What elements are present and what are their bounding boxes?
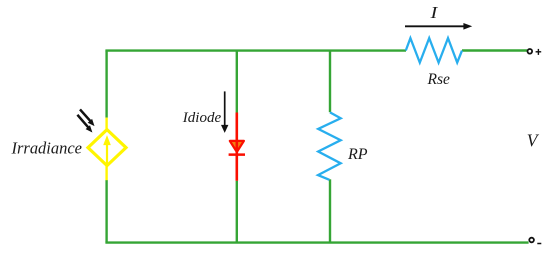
svg-text:Idiode: Idiode [182, 110, 222, 126]
svg-text:RP: RP [347, 146, 368, 163]
svg-text:Irradiance: Irradiance [11, 138, 83, 157]
svg-text:Rse: Rse [427, 71, 451, 88]
